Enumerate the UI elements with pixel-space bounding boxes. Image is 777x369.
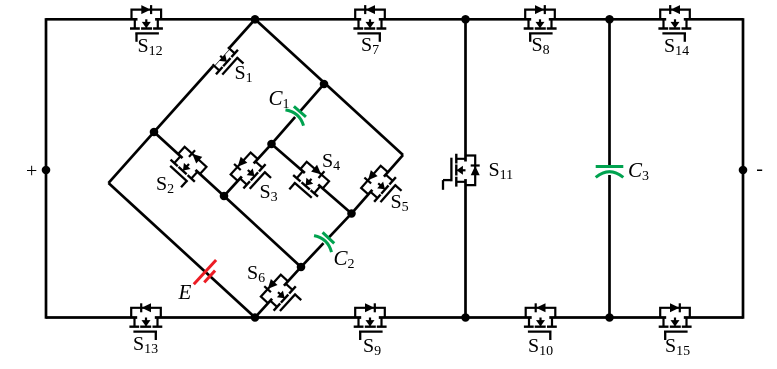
wire left rail: [45, 18, 48, 319]
node top C3 column: [605, 15, 614, 24]
label S6: [247, 262, 265, 287]
wire C3 column: [608, 19, 611, 317]
transistor S14: [658, 5, 691, 42]
wire edge B-D (S4): [272, 144, 352, 214]
wire right rail: [742, 18, 745, 319]
wire edge A-C (S2): [154, 132, 224, 196]
label S12: [138, 35, 163, 60]
label S13: [133, 333, 158, 358]
transistor S15: [659, 303, 692, 340]
label S8: [532, 34, 550, 59]
wire S11 column: [464, 19, 467, 317]
label S10: [528, 335, 553, 360]
label S15: [665, 335, 690, 360]
node F: [251, 313, 260, 322]
transistor S11: [443, 154, 480, 190]
terminal - node: [739, 166, 748, 175]
node T2: [320, 80, 329, 89]
label S11: [489, 159, 514, 184]
wire edge C-E2: [224, 196, 301, 267]
wire edge C-B (S3): [224, 144, 272, 196]
wire edge R-D (S5): [352, 155, 404, 214]
transistor S8: [524, 5, 557, 42]
node T: [251, 15, 260, 24]
capacitor C2: [314, 230, 337, 252]
node D: [347, 209, 356, 218]
wire edge D-E2 (C2): [301, 214, 352, 268]
transistor S13: [129, 303, 162, 340]
node bottom S11 column: [461, 313, 470, 322]
capacitor C1: [285, 104, 308, 126]
label S3: [260, 181, 278, 206]
terminal + node: [42, 166, 51, 175]
transistor S9: [354, 303, 387, 340]
node A: [150, 128, 159, 137]
wire edge E2-F (S6): [255, 267, 301, 318]
label + terminal: [26, 160, 37, 183]
wire edge T-A (S1): [154, 19, 255, 132]
transistor S12: [130, 5, 163, 42]
wire edge L-F (source E): [109, 183, 256, 318]
transistor S1: [207, 42, 247, 83]
wire edge T-T2-R: [255, 19, 403, 155]
label C2: [334, 246, 355, 273]
label S4: [322, 150, 340, 175]
label S2: [156, 173, 174, 198]
transistor S6: [256, 271, 305, 320]
wire top rail: [46, 18, 743, 21]
wire edge A-L: [109, 132, 155, 183]
transistor S7: [353, 5, 386, 42]
transistor S2: [162, 142, 211, 191]
label - terminal: [756, 158, 763, 181]
label C1: [269, 86, 290, 113]
label S5: [391, 191, 409, 216]
transistor S10: [524, 303, 557, 340]
node B: [267, 140, 276, 149]
battery E: [194, 260, 221, 289]
node bottom C3 column: [605, 313, 614, 322]
wire edge B-T2 (C1): [272, 84, 325, 144]
label E: [179, 280, 192, 305]
label S1: [235, 62, 253, 87]
node E2: [297, 263, 306, 272]
transistor S3: [226, 148, 275, 197]
label S7: [361, 34, 379, 59]
node C: [220, 192, 229, 201]
transistor S4: [284, 157, 333, 206]
label C3: [628, 158, 649, 185]
label S14: [664, 35, 689, 60]
wire bottom rail: [46, 316, 743, 319]
label S9: [363, 335, 381, 360]
capacitor C3: [596, 167, 624, 178]
node top S11 column: [461, 15, 470, 24]
transistor S5: [357, 162, 406, 211]
